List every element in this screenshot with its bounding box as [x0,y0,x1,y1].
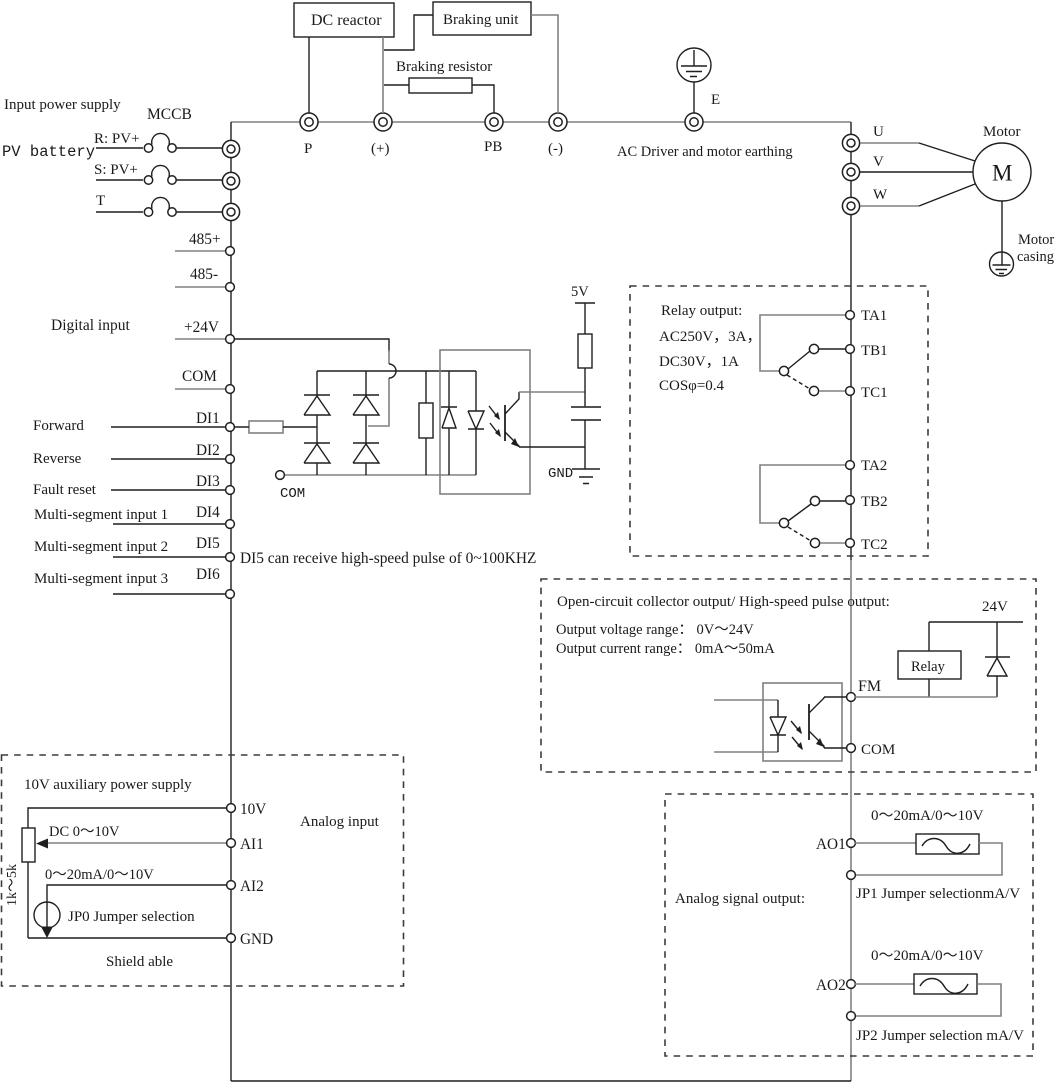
terminal U [842,134,859,151]
node TB1 [846,345,855,354]
wire collector to 5V node [519,391,585,393]
node AO2 return [847,1012,856,1021]
wire AI2 to current source [47,885,227,927]
motor M [973,143,1031,201]
resistor DI1 series [249,421,283,433]
diode bridge D4 (col2 bottom) [353,426,379,475]
wire AO1 to converter [855,842,916,844]
node AI2 [227,881,236,890]
svg-text:AC250V，3A，: AC250V，3A， [659,329,762,345]
wire TC1 [819,390,845,392]
resistor pull-up [578,334,592,368]
node FM [847,693,856,702]
earth symbol motor casing [990,252,1014,276]
wire TA1 to pole1 [760,315,845,371]
wire opto input top [714,699,778,701]
wire motor to casing earth [1001,201,1003,265]
open collector dashed box [541,579,1036,772]
node TA1 [846,311,855,320]
relay pole 1 [779,366,788,375]
wire AO1 loop [855,843,1002,875]
terminal P [300,113,318,131]
wire right bus vertical (upper) [850,122,852,560]
svg-text:Digital input: Digital input [51,317,130,334]
terminal E [685,113,703,131]
wire TB2 [820,500,845,502]
terminal PB [485,113,503,131]
DC reactor box [294,3,394,37]
diode freewheel [985,622,1010,697]
svg-text:DC 0～10V: DC 0～10V [49,824,120,840]
svg-text:DC30V，1A: DC30V，1A [659,354,739,370]
SECTION: analog output [665,794,1033,1056]
wire bridge top rail [317,370,476,372]
svg-text:TC2: TC2 [861,537,888,553]
SECTION: mccb input [2,97,240,221]
svg-text:T: T [96,193,105,209]
wire +24V feed with hop [234,339,389,352]
wire emitter to COM [824,747,846,749]
svg-text:COM: COM [182,368,217,385]
wire bridge bottom rail [284,474,476,476]
svg-text:10V: 10V [240,801,266,818]
svg-text:JP0 Jumper selection: JP0 Jumper selection [68,909,195,925]
svg-text:Input power supply: Input power supply [4,97,121,113]
diode zener clamp [441,371,457,475]
svg-text:TA1: TA1 [861,308,887,324]
wire 24V rail [929,621,1023,623]
wire relay coil to FM rail [928,679,930,697]
svg-text:DI5 can receive high-speed pu: DI5 can receive high-speed pulse of 0~10… [240,550,536,567]
terminal (+) [374,113,392,131]
svg-text:COSφ=0.4: COSφ=0.4 [659,378,725,394]
svg-text:10V auxiliary power supply: 10V auxiliary power supply [24,777,192,793]
svg-text:Multi-segment input 1: Multi-segment input 1 [34,507,168,523]
svg-text:GND: GND [548,466,573,482]
wire emitter to gnd node [519,446,585,448]
svg-text:M: M [992,161,1012,186]
current source JP0 [34,902,60,928]
svg-text:TC1: TC1 [861,385,888,401]
svg-text:24V: 24V [982,599,1008,615]
svg-text:Braking unit: Braking unit [443,12,519,28]
svg-text:PB: PB [484,139,502,155]
diode bridge D1 (col1 top) [304,371,330,427]
terminal V [842,163,859,180]
svg-text:Output voltage range： 0V～24V: Output voltage range： 0V～24V [556,622,754,638]
svg-text:1k～5k: 1k～5k [5,864,20,906]
svg-text:Analog signal output:: Analog signal output: [675,891,805,907]
svg-text:DC reactor: DC reactor [311,12,382,29]
node COM [847,744,856,753]
wire U to motor [860,142,919,144]
wire top DC bus [231,121,851,123]
svg-text:TB1: TB1 [861,343,888,359]
svg-text:485-: 485- [190,266,218,283]
relay coil box [898,651,961,679]
node TB2 [846,496,855,505]
svg-text:DI3: DI3 [196,473,220,490]
svg-text:0～20mA/0～10V: 0～20mA/0～10V [871,948,984,964]
svg-text:COM: COM [280,486,305,502]
resistor braking [409,78,472,93]
wire resistor left [384,84,409,86]
optocoupler U1 package [440,350,530,494]
terminal R [222,140,239,157]
svg-text:DI1: DI1 [196,410,220,427]
wire braking unit right to (-) [531,15,558,113]
SECTION: top components [294,2,720,113]
svg-text:PV battery: PV battery [2,143,95,161]
wire pot bottom to gnd rail [27,862,29,938]
relay pole 2 [779,518,788,527]
node TA2 [846,461,855,470]
svg-text:Relay: Relay [911,659,946,675]
svg-text:JP1 Jumper selectionmA/V: JP1 Jumper selectionmA/V [856,886,1020,902]
svg-text:Reverse: Reverse [33,451,82,467]
wire rail to relay coil [928,622,930,651]
resistor input shunt [419,403,433,438]
svg-text:MCCB: MCCB [147,106,192,123]
LED opto output stage [770,700,786,752]
svg-text:5V: 5V [571,284,589,300]
svg-text:Open-circuit collector output: Open-circuit collector output/ High-spee… [557,594,890,610]
svg-text:E: E [711,92,720,108]
svg-text:Motor: Motor [1018,232,1054,248]
svg-text:AO2: AO2 [816,977,846,994]
wire bottom return [231,1080,851,1082]
SECTION: DI opto circuit [234,284,601,502]
svg-text:DI4: DI4 [196,504,220,521]
terminal S [222,172,239,189]
node 10V [227,804,236,813]
Braking unit box [433,2,531,35]
light arrows [489,406,500,436]
svg-text:Multi-segment input 3: Multi-segment input 3 [34,571,168,587]
node GND [227,934,236,943]
SECTION: motor [842,124,1054,276]
svg-text:COM: COM [861,742,895,758]
contact arm 1 solid [788,351,810,369]
node COM open [276,471,285,480]
wire earth to E terminal [693,82,695,113]
light arrows [791,721,802,749]
SECTION: left terminal labels [33,231,536,598]
wire DI1 junction col1 [315,426,317,428]
wire gnd rail [28,937,227,939]
svg-text:DI6: DI6 [196,566,220,583]
wire DC reactor to (+) [382,37,384,113]
svg-text:485+: 485+ [189,231,221,248]
svg-text:Analog input: Analog input [300,814,380,830]
svg-text:Braking resistor: Braking resistor [396,59,492,75]
svg-text:V: V [873,154,884,170]
svg-text:R: PV+: R: PV+ [94,131,140,147]
converter box AO2 [914,974,977,994]
svg-text:U: U [873,124,884,140]
wire TC2 [820,542,845,544]
svg-text:GND: GND [240,931,273,948]
diode bridge D3 (col2 top) [353,371,379,426]
svg-text:Output current range： 0mA～50m: Output current range： 0mA～50mA [556,641,775,657]
wire AO2 to converter [855,983,914,985]
svg-text:FM: FM [858,678,881,695]
contact arm 1 dashed [787,375,810,389]
svg-text:AI2: AI2 [240,878,264,895]
svg-text:AI1: AI1 [240,836,264,853]
earth symbol E [677,48,711,82]
phototransistor Q2 [808,704,810,740]
svg-text:0～20mA/0～10V: 0～20mA/0～10V [45,867,154,883]
svg-text:0～20mA/0～10V: 0～20mA/0～10V [871,808,984,824]
svg-text:JP2 Jumper selection mA/V: JP2 Jumper selection mA/V [856,1028,1024,1044]
svg-text:+24V: +24V [184,319,219,336]
converter box AO1 [916,834,979,854]
wire AO2 loop [855,984,1001,1016]
wire opto input bottom [714,751,778,753]
wire braking unit left to (+) node [384,15,433,50]
relay output dashed box [630,286,928,556]
svg-text:DI5: DI5 [196,535,220,552]
svg-text:Motor: Motor [983,124,1021,140]
svg-text:Shield able: Shield able [106,954,173,970]
svg-text:S: PV+: S: PV+ [94,162,138,178]
analog output dashed box [665,794,1033,1056]
analog input dashed box [2,755,404,986]
contact arm 2 dashed [788,527,811,541]
potentiometer 1k-5k [22,828,35,862]
node TC2 [846,539,855,548]
phototransistor Q1 [504,405,506,441]
wire DC reactor to P [308,37,310,113]
node AI1 [227,839,236,848]
terminal W [842,197,859,214]
wire left bus vertical [230,122,232,1081]
svg-text:P: P [304,141,312,157]
SECTION: analog input [2,755,404,986]
wire V to motor [860,171,973,173]
svg-text:DI2: DI2 [196,442,220,459]
svg-text:Fault reset: Fault reset [33,482,97,498]
capacitor C1 [571,407,601,420]
SECTION: open collector [541,579,1036,772]
MAIN FRAME [231,113,851,1081]
wire collector to FM [824,696,846,698]
optocoupler U2 package [763,683,842,761]
node AO2 [847,980,856,989]
node AO1 return [847,871,856,880]
contact arm 2 solid [788,504,811,521]
svg-text:AC Driver and motor earthing: AC Driver and motor earthing [617,144,793,160]
wire 10V to potentiometer [28,808,227,828]
wire FM rail [855,696,997,698]
wire W to motor [860,205,919,207]
svg-text:(-): (-) [548,141,563,157]
svg-text:Multi-segment input 2: Multi-segment input 2 [34,539,168,555]
wire right bus vertical (lower) [850,560,852,1081]
SECTION: relay output [630,286,928,556]
LED opto input [468,371,484,475]
svg-text:casing: casing [1017,249,1054,265]
svg-text:Relay output:: Relay output: [661,303,742,319]
svg-text:Forward: Forward [33,418,84,434]
diode bridge D2 (col1 bottom) [304,427,330,475]
node AO1 [847,839,856,848]
wire TB1 [819,348,845,350]
terminal T [222,203,239,220]
node TC1 [846,387,855,396]
svg-text:W: W [873,187,888,203]
svg-text:TB2: TB2 [861,494,888,510]
svg-text:AO1: AO1 [816,836,846,853]
wire TA2 to pole2 [760,465,845,523]
wire resistor right to PB [472,85,494,113]
svg-text:TA2: TA2 [861,458,887,474]
svg-text:(+): (+) [371,141,389,157]
terminal (-) [549,113,567,131]
wire AI1 wiper with arrow [44,842,227,844]
wire hop arc [389,364,396,378]
